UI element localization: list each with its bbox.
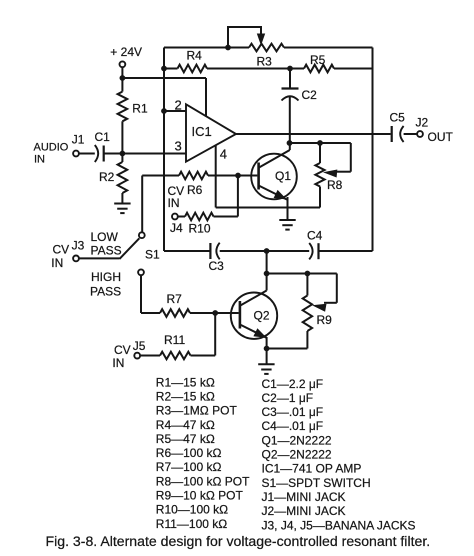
svg-text:R9—10 kΩ POT: R9—10 kΩ POT	[156, 489, 244, 503]
svg-text:IN: IN	[51, 256, 63, 270]
svg-text:J4: J4	[170, 221, 183, 235]
svg-text:J3, J4, J5—BANANA JACKS: J3, J4, J5—BANANA JACKS	[262, 518, 416, 532]
svg-text:R1: R1	[132, 102, 148, 116]
svg-text:S1: S1	[145, 247, 160, 261]
svg-text:C4: C4	[307, 229, 323, 243]
svg-text:+ 24V: + 24V	[110, 45, 142, 59]
svg-text:IC1—741 OP AMP: IC1—741 OP AMP	[262, 462, 362, 476]
svg-text:C1—2.2 μF: C1—2.2 μF	[262, 377, 324, 391]
svg-text:PASS: PASS	[91, 244, 122, 258]
svg-text:2: 2	[175, 98, 182, 113]
svg-text:J1—MINI JACK: J1—MINI JACK	[262, 490, 346, 504]
svg-text:HIGH: HIGH	[91, 270, 121, 284]
svg-text:C3: C3	[209, 259, 225, 273]
svg-text:C3—.01 μF: C3—.01 μF	[262, 405, 324, 419]
svg-text:R7—100 kΩ: R7—100 kΩ	[156, 460, 222, 474]
svg-text:J3: J3	[72, 239, 85, 253]
svg-text:CV: CV	[53, 242, 70, 256]
svg-text:C1: C1	[95, 130, 111, 144]
svg-text:R6—100 kΩ: R6—100 kΩ	[156, 446, 222, 460]
svg-text:C2—1 μF: C2—1 μF	[262, 391, 314, 405]
svg-text:Q1—2N2222: Q1—2N2222	[262, 433, 332, 447]
svg-text:J5: J5	[133, 339, 146, 353]
svg-text:4: 4	[220, 147, 227, 162]
svg-text:AUDIO: AUDIO	[34, 142, 69, 154]
svg-text:OUT: OUT	[428, 130, 454, 144]
svg-text:R3: R3	[257, 55, 273, 69]
svg-text:S1—SPDT SWITCH: S1—SPDT SWITCH	[262, 476, 371, 490]
svg-text:J1: J1	[72, 133, 85, 147]
svg-text:IC1: IC1	[192, 124, 212, 139]
svg-text:C4—.01 μF: C4—.01 μF	[262, 419, 324, 433]
svg-text:R7: R7	[167, 292, 183, 306]
svg-text:LOW: LOW	[91, 230, 119, 244]
svg-text:Fig. 3-8. Alternate design for: Fig. 3-8. Alternate design for voltage-c…	[46, 533, 431, 549]
svg-text:C5: C5	[390, 111, 406, 125]
svg-text:R5: R5	[310, 53, 326, 67]
svg-text:CV: CV	[114, 343, 131, 357]
svg-text:R4—47 kΩ: R4—47 kΩ	[156, 418, 215, 432]
svg-text:IN: IN	[34, 153, 45, 165]
svg-text:R11—100 kΩ: R11—100 kΩ	[156, 517, 227, 531]
svg-text:R5—47 kΩ: R5—47 kΩ	[156, 432, 215, 446]
svg-text:R10—100 kΩ: R10—100 kΩ	[156, 503, 228, 517]
svg-text:R4: R4	[187, 49, 203, 63]
svg-text:R10: R10	[189, 222, 211, 236]
svg-text:J2—MINI JACK: J2—MINI JACK	[262, 504, 346, 518]
svg-text:3: 3	[175, 139, 182, 154]
svg-text:R11: R11	[164, 333, 185, 347]
svg-text:R9: R9	[317, 313, 333, 327]
svg-text:Q2: Q2	[254, 309, 270, 323]
svg-text:R3—1MΩ POT: R3—1MΩ POT	[156, 404, 238, 418]
svg-text:C2: C2	[302, 88, 318, 102]
svg-text:R8—100 kΩ POT: R8—100 kΩ POT	[156, 474, 250, 488]
svg-text:PASS: PASS	[90, 285, 121, 299]
svg-text:IN: IN	[168, 196, 180, 210]
svg-text:R6: R6	[187, 183, 203, 197]
svg-text:R8: R8	[327, 178, 343, 192]
svg-text:Q1: Q1	[275, 169, 291, 183]
svg-text:R1—15 kΩ: R1—15 kΩ	[156, 375, 215, 389]
svg-text:R2: R2	[99, 170, 115, 184]
svg-text:R2—15 kΩ: R2—15 kΩ	[156, 389, 215, 403]
svg-text:Q2—2N2222: Q2—2N2222	[262, 448, 332, 462]
svg-text:IN: IN	[112, 356, 124, 370]
svg-text:J2: J2	[416, 116, 429, 130]
